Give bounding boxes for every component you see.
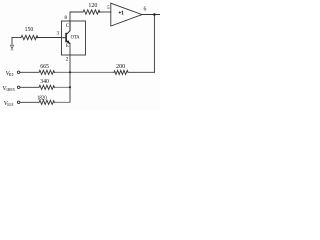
transistor emitter with arrow (66, 40, 70, 43)
wire R150 to pin 3 (36, 37, 62, 39)
svg-text:GREEN: GREEN (6, 87, 15, 92)
ground (10, 38, 13, 50)
OTA box U1 (62, 21, 86, 55)
svg-text:2: 2 (66, 56, 69, 62)
svg-text:OTA: OTA (71, 35, 80, 41)
wire R120 to op-amp input (99, 11, 111, 13)
pin 8 stub (70, 12, 83, 21)
resistor 665 (39, 70, 55, 74)
op-amp buffer +1 (111, 3, 142, 26)
svg-text:3: 3 (57, 31, 60, 37)
input terminal VGREEN (17, 86, 20, 89)
svg-text:340: 340 (40, 79, 49, 85)
wire VGREEN to R340 (20, 86, 39, 88)
wire R1820 to bus (53, 101, 70, 103)
transistor inside OTA: collector wire (66, 21, 70, 35)
svg-text:E: E (66, 44, 69, 49)
transistor base bar (65, 34, 67, 42)
svg-text:5: 5 (107, 5, 110, 11)
svg-text:150: 150 (25, 27, 34, 33)
wire ground to R150 (12, 37, 21, 39)
wire R200 to summing node (70, 71, 114, 73)
wire VBLUE to R1820 (20, 101, 39, 103)
emitter arrowhead (67, 40, 71, 44)
resistor 150 (21, 35, 38, 39)
resistor 200 (114, 70, 128, 74)
svg-text:665: 665 (40, 64, 49, 70)
resistor 120 (83, 10, 100, 14)
wire VRED to R665 (20, 71, 39, 73)
wire R340 to bus (53, 86, 70, 88)
gain label +1 (119, 11, 121, 13)
svg-text:6: 6 (144, 7, 147, 13)
wire right vertical to R200 (128, 71, 154, 73)
input terminal VBLUE (17, 101, 20, 104)
svg-text:120: 120 (88, 3, 97, 9)
svg-text:200: 200 (116, 64, 125, 70)
svg-text:1820: 1820 (37, 96, 47, 102)
svg-text:C: C (66, 24, 69, 29)
pin 2 wire / summing bus (69, 55, 71, 102)
junction node green row (69, 86, 71, 88)
wire R665 to bus (53, 71, 70, 73)
junction node at summing point (69, 71, 71, 73)
resistor 1820 (39, 100, 55, 104)
feedback vertical wire right (153, 15, 155, 73)
svg-text:BLUE: BLUE (7, 102, 14, 107)
svg-text:8: 8 (64, 15, 67, 21)
input terminal VRED (17, 71, 20, 74)
junction node op-amp output (153, 13, 156, 16)
resistor 340 (39, 85, 55, 89)
transistor base lead (62, 37, 67, 39)
op-amp output wire (142, 14, 160, 16)
svg-text:RED: RED (9, 72, 13, 77)
